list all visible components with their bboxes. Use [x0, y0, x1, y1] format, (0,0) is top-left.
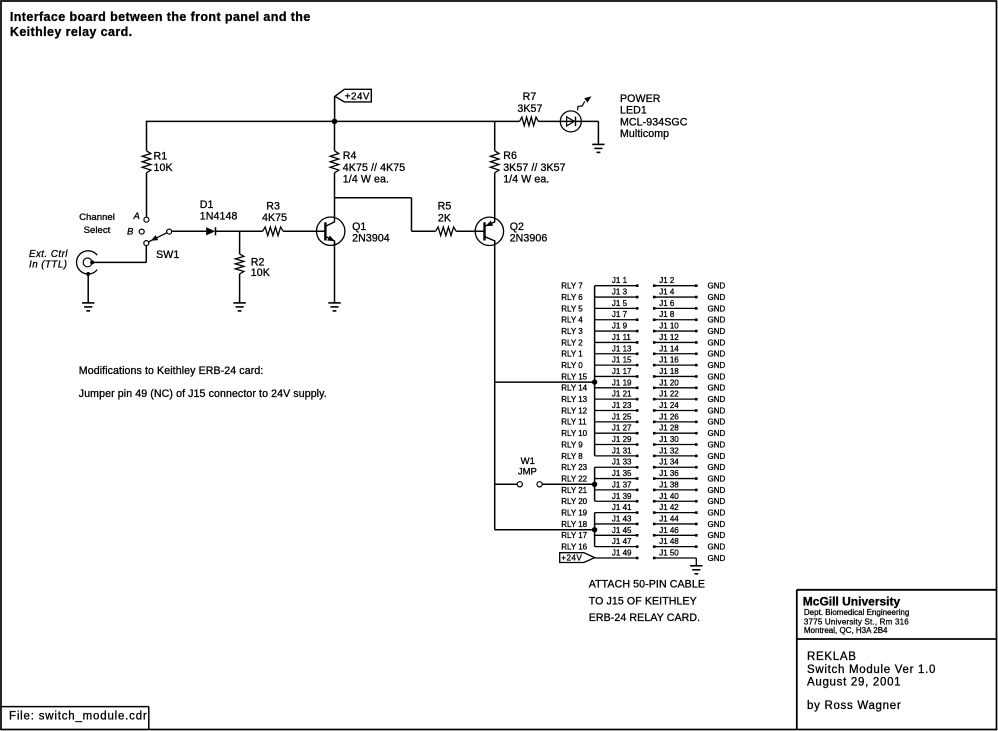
svg-text:RLY 1: RLY 1 — [561, 350, 583, 359]
wire pin J1 43 stub — [595, 523, 638, 525]
resistor R1 — [142, 151, 151, 173]
svg-text:1N4148: 1N4148 — [200, 210, 238, 222]
svg-text:JMP: JMP — [518, 466, 537, 477]
svg-text:RLY 12: RLY 12 — [561, 406, 587, 415]
wire tap to bus (J1 19 area) — [495, 381, 595, 383]
LED LED1 — [560, 111, 581, 132]
svg-text:GND: GND — [708, 316, 726, 325]
bus segment 2 (J1 33-39) — [594, 467, 596, 501]
svg-text:J1 10: J1 10 — [659, 322, 679, 331]
pin J1 29 — [636, 443, 639, 446]
pin J1 6 left — [653, 307, 656, 310]
transistor Q1 — [317, 217, 345, 245]
wire pin J1 37 stub — [595, 489, 638, 491]
wire pin J1 25 stub — [595, 421, 638, 423]
svg-text:J1 17: J1 17 — [612, 367, 632, 376]
pin J1 25 — [636, 421, 639, 424]
svg-text:GND: GND — [708, 440, 726, 449]
wire pin J1 36 — [654, 478, 696, 480]
wire pin J1 6 — [654, 307, 696, 309]
node BNC shield dot — [86, 272, 90, 276]
svg-text:J1 42: J1 42 — [659, 503, 679, 512]
svg-text:4K75 // 4K75: 4K75 // 4K75 — [343, 162, 405, 174]
wire pin J1 29 stub — [595, 444, 638, 446]
node bus junction 3 — [592, 527, 597, 532]
pin J1 16 right — [695, 364, 698, 367]
switch SW1 pole terminal — [167, 229, 172, 234]
resistor R6 — [490, 151, 499, 173]
svg-text:R4: R4 — [343, 150, 357, 162]
svg-text:GND: GND — [708, 531, 726, 540]
pin J1 42 left — [653, 511, 656, 514]
svg-text:GND: GND — [708, 497, 726, 506]
pin J1 13 — [636, 352, 639, 355]
pin J1 18 left — [653, 375, 656, 378]
pin J1 47 — [636, 545, 639, 548]
pin J1 2 right — [695, 284, 698, 287]
svg-text:J1 6: J1 6 — [659, 299, 675, 308]
wire R4 to Q1 collector node — [334, 173, 336, 217]
svg-text:J1 21: J1 21 — [612, 390, 632, 399]
wire pin J1 27 stub — [595, 432, 638, 434]
svg-text:GND: GND — [708, 543, 726, 552]
pin J1 36 left — [653, 477, 656, 480]
svg-text:RLY 14: RLY 14 — [561, 384, 587, 393]
svg-text:RLY 15: RLY 15 — [561, 372, 587, 381]
svg-text:RLY 19: RLY 19 — [561, 509, 587, 518]
svg-text:RLY 3: RLY 3 — [561, 327, 583, 336]
svg-text:RLY 7: RLY 7 — [561, 282, 583, 291]
svg-text:GND: GND — [708, 406, 726, 415]
svg-text:LED1: LED1 — [620, 105, 647, 117]
svg-text:RLY 20: RLY 20 — [561, 497, 587, 506]
svg-text:J1 34: J1 34 — [659, 458, 679, 467]
wire pin J1 5 stub — [595, 307, 638, 309]
pin J1 5 — [636, 307, 639, 310]
svg-text:+24V: +24V — [561, 553, 582, 562]
pin J1 46 left — [653, 534, 656, 537]
svg-text:J1 22: J1 22 — [659, 390, 679, 399]
ground (R2) — [233, 303, 245, 311]
pin J1 8 right — [695, 318, 698, 321]
svg-text:ERB-24 RELAY CARD.: ERB-24 RELAY CARD. — [589, 612, 701, 624]
pin J1 26 right — [695, 421, 698, 424]
svg-text:GND: GND — [708, 463, 726, 472]
svg-text:GND: GND — [708, 418, 726, 427]
svg-text:RLY 23: RLY 23 — [561, 463, 587, 472]
svg-text:August 29, 2001: August 29, 2001 — [807, 676, 901, 688]
wire pin J1 22 — [654, 398, 696, 400]
pin J1 12 left — [653, 341, 656, 344]
svg-text:GND: GND — [708, 395, 726, 404]
svg-text:J1 45: J1 45 — [612, 526, 632, 535]
wire pin J1 48 — [654, 546, 696, 548]
svg-text:R7: R7 — [523, 91, 537, 103]
svg-text:1/4 W ea.: 1/4 W ea. — [503, 174, 549, 186]
pin J1 50 left — [653, 557, 656, 560]
svg-text:GND: GND — [708, 486, 726, 495]
svg-text:RLY 18: RLY 18 — [561, 520, 587, 529]
diode D1 — [206, 227, 215, 235]
svg-text:J1 19: J1 19 — [612, 378, 632, 387]
wire pin J1 20 — [654, 387, 696, 389]
svg-text:REKLAB: REKLAB — [807, 651, 857, 663]
svg-text:Switch Module Ver 1.0: Switch Module Ver 1.0 — [807, 664, 936, 676]
resistor R4 — [330, 151, 339, 173]
svg-text:W1: W1 — [521, 456, 535, 467]
wire D1 to R3 — [216, 230, 263, 232]
wire Q1 emitter to ground — [334, 241, 336, 303]
wire pin J1 42 — [654, 512, 696, 514]
svg-text:Montreal, QC, H3A 2B4: Montreal, QC, H3A 2B4 — [804, 626, 888, 635]
wire pin J1 13 stub — [595, 353, 638, 355]
pin J1 21 — [636, 398, 639, 401]
bus segment 1 (J1 1-31) — [594, 286, 596, 456]
svg-text:GND: GND — [708, 304, 726, 313]
power flag +24V (top) — [335, 89, 371, 102]
svg-text:GND: GND — [708, 327, 726, 336]
pin J1 16 left — [653, 364, 656, 367]
wire pin J1 30 — [654, 444, 696, 446]
svg-text:J1 3: J1 3 — [612, 288, 628, 297]
pin J1 32 right — [695, 455, 698, 458]
wire pin J1 40 — [654, 500, 696, 502]
svg-text:J1 24: J1 24 — [659, 401, 679, 410]
pin J1 40 left — [653, 500, 656, 503]
svg-text:RLY 5: RLY 5 — [561, 304, 583, 313]
wire R5 to Q2 base — [456, 230, 484, 232]
svg-text:3K57: 3K57 — [517, 103, 542, 115]
file box — [1, 706, 149, 708]
connector BNC inner pin — [83, 258, 92, 267]
svg-text:Multicomp: Multicomp — [620, 128, 669, 140]
title block frame — [796, 590, 798, 730]
wire pin J1 17 stub — [595, 375, 638, 377]
pin J1 6 right — [695, 307, 698, 310]
svg-text:RLY 8: RLY 8 — [561, 452, 583, 461]
svg-text:Interface board between the fr: Interface board between the front panel … — [10, 10, 311, 24]
svg-text:Dept. Biomedical Engineering: Dept. Biomedical Engineering — [804, 608, 909, 617]
svg-text:J1 15: J1 15 — [612, 356, 632, 365]
svg-text:J1 43: J1 43 — [612, 514, 632, 523]
svg-text:R6: R6 — [503, 150, 517, 162]
svg-text:J1 50: J1 50 — [659, 548, 679, 557]
pin J1 26 left — [653, 421, 656, 424]
resistor R3 — [263, 227, 284, 236]
svg-text:RLY 21: RLY 21 — [561, 486, 587, 495]
wire pin J1 14 — [654, 353, 696, 355]
resistor R5 — [436, 227, 457, 236]
resistor R2 — [235, 254, 244, 274]
wire pin J1 19 stub — [595, 387, 638, 389]
wire pin J1 26 — [654, 421, 696, 423]
svg-text:R5: R5 — [438, 200, 452, 212]
svg-text:GND: GND — [708, 429, 726, 438]
svg-text:J1 32: J1 32 — [659, 446, 679, 455]
svg-text:J1 2: J1 2 — [659, 276, 675, 285]
svg-text:GND: GND — [708, 338, 726, 347]
wire pin J1 28 — [654, 432, 696, 434]
bus segment 3 (J1 41-47) — [594, 513, 596, 547]
svg-text:GND: GND — [708, 520, 726, 529]
node junction rail/R4 — [332, 119, 338, 125]
svg-text:GND: GND — [708, 282, 726, 291]
svg-text:Channel: Channel — [79, 212, 115, 223]
wire pin J1 9 stub — [595, 330, 638, 332]
svg-text:POWER: POWER — [620, 93, 661, 105]
svg-text:RLY 11: RLY 11 — [561, 418, 587, 427]
svg-text:D1: D1 — [200, 199, 214, 211]
svg-text:J1 27: J1 27 — [612, 424, 632, 433]
pin J1 28 left — [653, 432, 656, 435]
pin J1 41 — [636, 511, 639, 514]
pin J1 24 left — [653, 409, 656, 412]
wire bottom tap to bus — [495, 529, 595, 531]
wire pin J1 45 stub — [595, 534, 638, 536]
svg-text:J1 49: J1 49 — [612, 548, 632, 557]
svg-text:J1 16: J1 16 — [659, 356, 679, 365]
wire pin J1 2 — [654, 285, 696, 287]
pin J1 45 — [636, 534, 639, 537]
svg-text:1/4 W ea.: 1/4 W ea. — [343, 174, 389, 186]
node BNC pin dot — [90, 260, 94, 264]
svg-text:J1 37: J1 37 — [612, 480, 632, 489]
pin J1 30 right — [695, 443, 698, 446]
svg-text:R3: R3 — [266, 201, 280, 213]
wire +24V flag to rail — [334, 97, 336, 122]
wire pin J1 23 stub — [595, 410, 638, 412]
svg-text:J1 5: J1 5 — [612, 299, 628, 308]
svg-text:J1 38: J1 38 — [659, 480, 679, 489]
pin J1 11 — [636, 341, 639, 344]
pin J1 39 — [636, 500, 639, 503]
wire node to R2 — [239, 231, 241, 254]
pin J1 40 right — [695, 500, 698, 503]
wire pin J1 44 — [654, 523, 696, 525]
pin J1 42 right — [695, 511, 698, 514]
wire pin J1 50 — [654, 557, 696, 559]
svg-text:A: A — [133, 211, 140, 222]
svg-text:RLY 17: RLY 17 — [561, 531, 587, 540]
wire SW1 pole to D1 — [172, 230, 207, 232]
pin J1 17 — [636, 375, 639, 378]
wire pin J1 47 stub — [595, 546, 638, 548]
svg-text:J1 41: J1 41 — [612, 503, 632, 512]
svg-text:GND: GND — [708, 372, 726, 381]
wire pin J1 33 stub — [595, 466, 638, 468]
wire corner to R5 — [412, 230, 436, 232]
svg-text:GND: GND — [708, 350, 726, 359]
pin J1 2 left — [653, 284, 656, 287]
svg-text:GND: GND — [708, 509, 726, 518]
wire SW1 common down — [145, 246, 147, 263]
svg-text:J1 12: J1 12 — [659, 333, 679, 342]
svg-text:J1 1: J1 1 — [612, 276, 628, 285]
pin J1 4 right — [695, 296, 698, 299]
svg-text:J1 14: J1 14 — [659, 344, 679, 353]
pin J1 34 left — [653, 466, 656, 469]
svg-text:2N3906: 2N3906 — [510, 233, 548, 245]
pin J1 9 — [636, 330, 639, 333]
svg-text:J1 40: J1 40 — [659, 492, 679, 501]
svg-text:J1 39: J1 39 — [612, 492, 632, 501]
wire +24V rail segment 1 — [147, 120, 520, 122]
svg-text:+24V: +24V — [345, 92, 370, 103]
pin J1 44 right — [695, 523, 698, 526]
svg-text:ATTACH 50-PIN CABLE: ATTACH 50-PIN CABLE — [589, 579, 705, 591]
wire pin J1 3 stub — [595, 296, 638, 298]
svg-text:2N3904: 2N3904 — [352, 233, 390, 245]
pin J1 14 left — [653, 352, 656, 355]
wire rail corner down to R1 — [146, 121, 148, 151]
ground (Q1) — [328, 303, 340, 311]
svg-text:GND: GND — [708, 361, 726, 370]
svg-text:Ext. Ctrl: Ext. Ctrl — [29, 249, 68, 260]
wire rail R7 to LED corner — [538, 120, 598, 122]
svg-text:GND: GND — [708, 384, 726, 393]
pin J1 1 — [636, 284, 639, 287]
pin J1 20 left — [653, 387, 656, 390]
pin J1 46 right — [695, 534, 698, 537]
svg-text:Modifications to Keithley ERB-: Modifications to Keithley ERB-24 card: — [79, 365, 264, 377]
pin J1 8 left — [653, 318, 656, 321]
wire pin J1 24 — [654, 410, 696, 412]
wire pin J1 10 — [654, 330, 696, 332]
pin J1 36 right — [695, 477, 698, 480]
svg-text:J1 25: J1 25 — [612, 412, 632, 421]
ground (J1 50) — [690, 566, 702, 574]
svg-text:GND: GND — [708, 554, 726, 563]
wire pin J1 16 — [654, 364, 696, 366]
svg-text:10K: 10K — [251, 267, 270, 279]
wire node to R5 corner — [335, 197, 412, 199]
pin J1 37 — [636, 489, 639, 492]
pin J1 3 — [636, 296, 639, 299]
switch SW1 common terminal — [144, 241, 149, 246]
svg-text:J1 20: J1 20 — [659, 378, 679, 387]
svg-text:RLY 6: RLY 6 — [561, 293, 583, 302]
pin J1 43 — [636, 523, 639, 526]
wire pin J1 11 stub — [595, 341, 638, 343]
svg-text:RLY 22: RLY 22 — [561, 474, 587, 483]
switch SW1 contact A — [144, 217, 149, 222]
svg-text:Q2: Q2 — [510, 221, 524, 233]
wire pin J1 46 — [654, 534, 696, 536]
pin J1 23 — [636, 409, 639, 412]
pin J1 48 right — [695, 545, 698, 548]
pin J1 19 — [636, 387, 639, 390]
connector Ext. Ctrl BNC outer — [77, 251, 98, 274]
wire pin J1 34 — [654, 466, 696, 468]
svg-text:J1 7: J1 7 — [612, 310, 628, 319]
pin J1 38 left — [653, 489, 656, 492]
power flag +24V (J1 49) — [560, 553, 595, 563]
svg-text:McGill University: McGill University — [803, 594, 901, 608]
pin J1 38 right — [695, 489, 698, 492]
pin J1 12 right — [695, 341, 698, 344]
pin J1 33 — [636, 466, 639, 469]
wire R1 to switch contact A — [146, 173, 148, 217]
wire pin J1 32 — [654, 455, 696, 457]
svg-text:Q1: Q1 — [352, 221, 366, 233]
pin J1 35 — [636, 477, 639, 480]
pin J1 27 — [636, 432, 639, 435]
pin J1 32 left — [653, 455, 656, 458]
wire pin J1 41 stub — [595, 512, 638, 514]
svg-text:J1 11: J1 11 — [612, 333, 632, 342]
wire rail to R6 — [494, 121, 496, 150]
wire pin J1 18 — [654, 375, 696, 377]
node bus junction 1 — [592, 379, 597, 384]
svg-text:RLY 13: RLY 13 — [561, 395, 587, 404]
svg-text:J1 36: J1 36 — [659, 469, 679, 478]
pin J1 14 right — [695, 352, 698, 355]
pin J1 24 right — [695, 409, 698, 412]
svg-text:Select: Select — [84, 225, 111, 236]
svg-text:SW1: SW1 — [156, 249, 179, 261]
pin J1 49 — [636, 557, 639, 560]
svg-text:3K57 // 3K57: 3K57 // 3K57 — [503, 162, 565, 174]
wire pin J1 39 stub — [595, 500, 638, 502]
pin J1 22 right — [695, 398, 698, 401]
wire pin J1 21 stub — [595, 398, 638, 400]
wire rail to R4 — [334, 121, 336, 150]
svg-text:MCL-934SGC: MCL-934SGC — [620, 116, 688, 128]
wire Q2 collector down — [494, 241, 496, 530]
svg-text:J1 35: J1 35 — [612, 469, 632, 478]
wire BNC shield to ground — [87, 276, 89, 303]
svg-text:RLY 9: RLY 9 — [561, 440, 583, 449]
svg-text:J1 13: J1 13 — [612, 344, 632, 353]
ground (BNC) — [82, 303, 94, 311]
node bus junction 2 — [592, 482, 597, 487]
switch SW1 blade — [148, 233, 167, 242]
svg-text:J1 30: J1 30 — [659, 435, 679, 444]
jumper W1 pin 2 — [537, 482, 542, 487]
pin J1 34 right — [695, 466, 698, 469]
svg-text:J1 8: J1 8 — [659, 310, 675, 319]
wire pin J1 7 stub — [595, 319, 638, 321]
pin J1 10 right — [695, 330, 698, 333]
svg-text:GND: GND — [708, 293, 726, 302]
wire pin J1 12 — [654, 341, 696, 343]
wire pin J1 8 — [654, 319, 696, 321]
pin J1 7 — [636, 318, 639, 321]
svg-text:B: B — [127, 227, 134, 238]
ground (LED) — [592, 144, 604, 152]
pin J1 20 right — [695, 387, 698, 390]
svg-text:J1 23: J1 23 — [612, 401, 632, 410]
svg-text:RLY 10: RLY 10 — [561, 429, 587, 438]
pin J1 22 left — [653, 398, 656, 401]
svg-text:In (TTL): In (TTL) — [29, 260, 67, 271]
wire pin J1 15 stub — [595, 364, 638, 366]
pin J1 4 left — [653, 296, 656, 299]
svg-text:J1 47: J1 47 — [612, 537, 632, 546]
wire pin J1 4 — [654, 296, 696, 298]
svg-text:J1 48: J1 48 — [659, 537, 679, 546]
svg-text:J1 44: J1 44 — [659, 514, 679, 523]
svg-text:Jumper pin 49 (NC) of J15 conn: Jumper pin 49 (NC) of J15 connector to 2… — [79, 388, 327, 400]
svg-text:10K: 10K — [154, 162, 173, 174]
wire jumper to bus — [542, 483, 594, 485]
svg-text:GND: GND — [708, 474, 726, 483]
svg-text:J1 31: J1 31 — [612, 446, 632, 455]
wire pin J1 49 stub — [595, 557, 638, 559]
svg-text:4K75: 4K75 — [262, 212, 287, 224]
svg-text:R1: R1 — [154, 151, 168, 163]
pin J1 18 right — [695, 375, 698, 378]
